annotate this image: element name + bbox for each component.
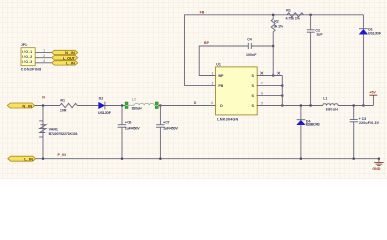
resistor R1 (10R) xyxy=(60,99,77,113)
svg-text:U1: U1 xyxy=(216,62,221,66)
pin 2 wire xyxy=(35,57,52,59)
junction C2 top xyxy=(310,14,312,16)
no-ERC cross pin 8 right xyxy=(277,72,280,75)
wire pin 5 / source rail to L1 xyxy=(257,105,323,107)
wire FB to pin 2 xyxy=(185,85,216,87)
bottom rail L_IN xyxy=(36,158,379,160)
wire D2 to L2 xyxy=(105,105,125,107)
svg-text:I/O-2: I/O-2 xyxy=(22,55,32,59)
connector JP1 xyxy=(21,43,41,71)
svg-text:D: D xyxy=(220,104,223,108)
junction GND xyxy=(378,158,380,160)
svg-text:2: 2 xyxy=(43,54,45,58)
port L_IN (connector row 3) xyxy=(52,61,78,66)
junction C3 bottom xyxy=(353,158,355,160)
capacitor C3 (220uF/6.3V) xyxy=(350,106,380,159)
wire pin 7 row xyxy=(257,85,283,87)
junction N rail / varistor xyxy=(42,104,44,106)
sheet background xyxy=(0,0,387,179)
junction D1 bottom xyxy=(362,104,364,106)
svg-text:L2: L2 xyxy=(132,98,136,102)
capacitor C2 (1uF) xyxy=(307,15,324,106)
wire pin 6 row xyxy=(257,95,283,97)
svg-text:N: N xyxy=(42,96,45,100)
wire R2 node down to pin 8 xyxy=(272,46,274,76)
junction pin6 bus xyxy=(281,95,283,97)
inductor L1 (680uH) xyxy=(323,97,338,112)
junction pin8 xyxy=(272,74,274,76)
junction varistor bottom xyxy=(42,158,44,160)
power port +5V xyxy=(369,91,377,106)
svg-text:1: 1 xyxy=(43,49,45,53)
wire R1 to D2 xyxy=(77,105,98,107)
svg-text:4: 4 xyxy=(211,101,213,105)
svg-text:I/O-1: I/O-1 xyxy=(22,50,32,54)
svg-text:1uF/450V: 1uF/450V xyxy=(125,126,140,130)
junction C6 bottom xyxy=(121,158,123,160)
svg-text:1: 1 xyxy=(212,72,214,76)
resistor R2 (2k 1%) vertical xyxy=(271,15,284,46)
svg-text:BP: BP xyxy=(218,74,224,78)
resistor R1 (4.75k 1%) top xyxy=(286,8,304,20)
svg-text:US1JDF: US1JDF xyxy=(368,32,382,36)
svg-text:R2: R2 xyxy=(274,20,279,24)
wire source bus vertical xyxy=(281,76,283,106)
junction pin5 bus xyxy=(281,104,283,106)
port L_OUT (connector row 2) xyxy=(52,55,78,60)
svg-text:L_IN: L_IN xyxy=(66,61,75,66)
junction D4 bottom xyxy=(300,158,302,160)
varistor VAR1 xyxy=(39,106,77,159)
diode D4 (ES1BC R3) freewheeling xyxy=(297,106,320,159)
svg-text:+ C7: + C7 xyxy=(163,121,170,125)
svg-text:3: 3 xyxy=(43,59,45,63)
svg-text:JP1: JP1 xyxy=(21,43,27,47)
junction R2 top xyxy=(272,14,274,16)
wire C4 to R2 bottom node xyxy=(251,45,273,47)
svg-text:2: 2 xyxy=(212,82,214,86)
svg-text:220uF/6.3V: 220uF/6.3V xyxy=(359,121,380,125)
svg-text:+5V: +5V xyxy=(369,91,376,95)
svg-text:7: 7 xyxy=(261,82,263,86)
port N_IN (left edge) xyxy=(7,103,34,108)
svg-text:1uF/450V: 1uF/450V xyxy=(163,126,178,130)
svg-text:I/O-3: I/O-3 xyxy=(22,60,32,64)
junction C7 xyxy=(159,104,161,106)
svg-text:10R: 10R xyxy=(60,108,67,112)
svg-text:4.75k 1%: 4.75k 1% xyxy=(286,16,301,20)
svg-text:FB: FB xyxy=(218,84,223,88)
svg-text:US1JDF: US1JDF xyxy=(98,111,112,115)
svg-text:FB: FB xyxy=(200,11,205,15)
inductor L2 (820uH) xyxy=(125,98,158,111)
svg-text:D: D xyxy=(194,101,197,105)
wire L2 to IC pin4 xyxy=(158,105,215,107)
junction pin7 bus xyxy=(281,85,283,87)
svg-text:ES1BC R3: ES1BC R3 xyxy=(306,123,320,127)
wire FB net: vertical + top rail xyxy=(185,15,364,86)
svg-text:680uH: 680uH xyxy=(326,108,338,112)
IC U1 LNK304GN xyxy=(216,62,258,121)
svg-text:P_IN: P_IN xyxy=(58,153,67,157)
svg-text:R1: R1 xyxy=(60,99,65,103)
diode D1 (US1JDF) vertical top right xyxy=(359,15,382,106)
svg-text:R1: R1 xyxy=(286,8,291,12)
wire pin 8 row xyxy=(257,75,283,77)
ground GND xyxy=(372,159,383,171)
svg-text:820uH: 820uH xyxy=(132,106,142,110)
capacitor C6 xyxy=(118,106,141,159)
svg-text:C4: C4 xyxy=(247,37,252,41)
svg-text:GND: GND xyxy=(372,167,380,171)
svg-text:CON3PIN8: CON3PIN8 xyxy=(21,67,41,71)
svg-text:BP: BP xyxy=(204,41,210,45)
capacitor C7 xyxy=(156,106,178,159)
svg-text:+ C6: + C6 xyxy=(125,121,131,125)
svg-text:100nF: 100nF xyxy=(246,53,257,57)
svg-text:LNK304GN: LNK304GN xyxy=(217,118,238,122)
svg-text:3k 1%: 3k 1% xyxy=(274,24,284,28)
svg-text:VAR1: VAR1 xyxy=(49,127,58,131)
svg-text:L_IN: L_IN xyxy=(24,157,33,162)
svg-text:D2: D2 xyxy=(99,97,104,101)
junction C3 top xyxy=(353,104,355,106)
junction D4 top xyxy=(300,104,302,106)
svg-text:L1: L1 xyxy=(323,97,327,101)
no-ERC cross pin 8 left xyxy=(260,72,263,75)
junction C7 bottom xyxy=(159,158,161,160)
pin 3 wire xyxy=(35,62,52,64)
svg-text:N_IN: N_IN xyxy=(22,103,32,108)
svg-text:5: 5 xyxy=(261,102,263,106)
port N_IN (connector row 1) xyxy=(52,50,78,55)
pin 1 wire xyxy=(35,51,52,53)
junction C4/R2 xyxy=(272,45,274,47)
wire top rail: port to R1 xyxy=(35,105,60,107)
port L_IN (left edge bottom) xyxy=(8,156,36,161)
svg-text:B72207S2271K101: B72207S2271K101 xyxy=(49,132,78,136)
diode D2 (US1JDF) xyxy=(98,97,112,115)
wire BP: pin1 to C4 xyxy=(199,46,248,76)
svg-text:1uF: 1uF xyxy=(316,33,323,37)
svg-text:6: 6 xyxy=(261,92,263,96)
wire L1 to +5V corner xyxy=(338,105,373,107)
junction C6 xyxy=(121,104,123,106)
capacitor C4 (100nF) xyxy=(246,37,257,57)
junction C2 bottom xyxy=(310,104,312,106)
